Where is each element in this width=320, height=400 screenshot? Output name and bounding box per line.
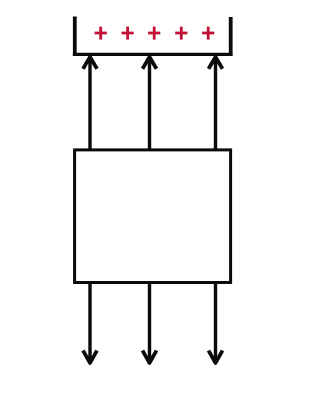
plus charge 4 xyxy=(175,27,187,40)
up arrow 1 (left) xyxy=(83,57,97,150)
up arrow 3 (right) xyxy=(209,57,223,150)
plus charge 3 xyxy=(148,27,160,40)
down arrow 1 (left) xyxy=(83,283,97,363)
plus charge 2 xyxy=(122,27,134,40)
down arrow 2 (middle) xyxy=(143,283,157,363)
down arrow 3 (right) xyxy=(209,283,223,363)
up arrow 2 (middle) xyxy=(143,57,157,150)
top plate (open-top container) xyxy=(73,17,233,57)
plus charge 1 xyxy=(95,27,107,40)
middle box xyxy=(75,150,231,283)
plus charge 5 xyxy=(202,27,214,40)
